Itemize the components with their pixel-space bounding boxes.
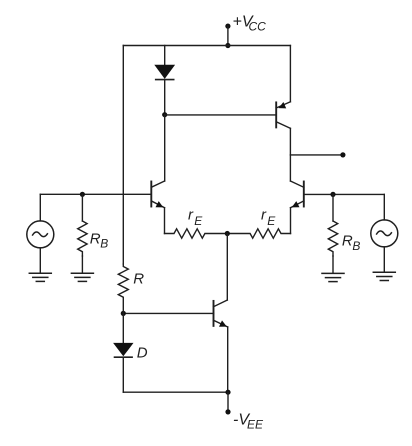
transistor Q1 (left of diff pair) — [151, 181, 164, 234]
svg-text:EE: EE — [247, 418, 264, 432]
wire Q4 base — [123, 312, 213, 314]
label +VCC — [233, 14, 267, 34]
resistor RB right — [328, 194, 337, 273]
label RB left — [90, 230, 109, 250]
transistor Q3 (PNP, top right) — [276, 46, 290, 182]
label rE left — [188, 206, 203, 228]
svg-text:B: B — [352, 239, 360, 253]
label D — [137, 345, 148, 362]
wire left rail upper — [122, 46, 124, 265]
svg-text:R: R — [342, 233, 353, 250]
label RB right — [342, 233, 361, 253]
node right RB junction — [330, 192, 335, 197]
resistor R — [118, 264, 128, 313]
wire left base — [40, 193, 151, 195]
resistor RB left — [78, 194, 87, 273]
wire output — [290, 154, 343, 156]
svg-text:E: E — [267, 214, 276, 228]
AC source right — [371, 194, 398, 272]
node bottom junction — [225, 390, 230, 395]
node diode junction — [162, 112, 167, 117]
svg-text:D: D — [137, 345, 148, 362]
svg-text:B: B — [100, 237, 108, 251]
ground (right RB) — [322, 273, 344, 281]
wire diode junction to Q3 base — [165, 114, 277, 116]
label R — [133, 270, 144, 287]
label rE right — [261, 206, 276, 228]
svg-text:E: E — [194, 214, 203, 228]
wire top rail — [123, 45, 290, 47]
+VCC terminal — [225, 24, 230, 49]
node output terminal — [340, 152, 345, 157]
wire emitter junction down — [226, 234, 228, 301]
resistor rE right — [227, 229, 290, 238]
svg-text:R: R — [90, 230, 101, 247]
node left RB junction — [80, 192, 85, 197]
svg-text:r: r — [261, 206, 267, 223]
ground (left AC) — [29, 273, 51, 281]
svg-text:r: r — [188, 206, 194, 223]
diode D1 (top) — [154, 46, 175, 115]
node R/D/base junction — [121, 311, 126, 316]
transistor Q2 (right of diff pair) — [291, 181, 304, 234]
transistor Q4 (bottom current source) — [214, 300, 228, 392]
label -VEE — [233, 412, 264, 432]
diode D (bottom left) — [113, 343, 133, 392]
svg-text:R: R — [133, 270, 144, 287]
ground (left RB) — [71, 273, 93, 281]
AC source left — [27, 194, 54, 273]
resistor rE left — [165, 229, 228, 238]
wire bottom rail — [123, 391, 228, 393]
svg-text:CC: CC — [249, 20, 267, 34]
wire left rail to diode D — [122, 313, 124, 343]
-VEE terminal — [225, 392, 230, 414]
wire diode junction down to Q1 collector — [164, 115, 166, 181]
node emitter junction — [225, 231, 230, 236]
wire right base — [304, 193, 385, 195]
ground (right AC) — [373, 272, 395, 280]
